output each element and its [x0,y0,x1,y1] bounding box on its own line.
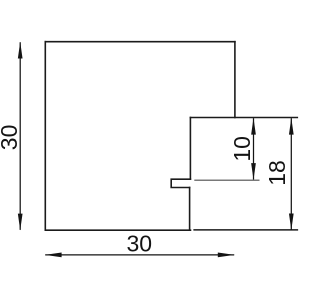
part outline: upper right edge [234,42,236,118]
dimension 18: bottom arrow [289,214,294,231]
part outline: inner vertical edge below groove [189,188,191,231]
part outline: inner vertical edge above groove [189,118,191,180]
dimension 30 left: bottom arrow [18,214,23,231]
dimension 30 left: dimension line [19,42,21,230]
extension line continuing bottom edge to the right [194,229,297,231]
dimension 18: top arrow [289,118,294,135]
extension line at y=180.2 for dimension 10 [194,179,259,181]
dimension 18: dimension line [290,118,292,230]
dimension 30 bottom: left arrow [45,253,62,258]
dimension 30 bottom: dimension line [45,254,234,256]
svg-text:30: 30 [127,231,153,257]
dimension 30 left: top arrow [18,42,23,59]
part outline: top edge [45,41,235,43]
part outline: groove tab [171,179,190,187]
part outline: bottom edge [45,229,190,231]
dimension 10: bottom arrow [251,163,256,180]
dimension 30 bottom: right arrow [218,253,235,258]
dimension 10: top arrow [251,118,256,135]
svg-text:10: 10 [229,136,255,162]
dimension 10: dimension line [253,118,255,179]
svg-text:30: 30 [0,125,22,151]
part outline: step shoulder at y=117.5 with extension to the right [190,117,297,119]
part outline: left edge [44,42,46,231]
svg-text:18: 18 [264,160,290,186]
